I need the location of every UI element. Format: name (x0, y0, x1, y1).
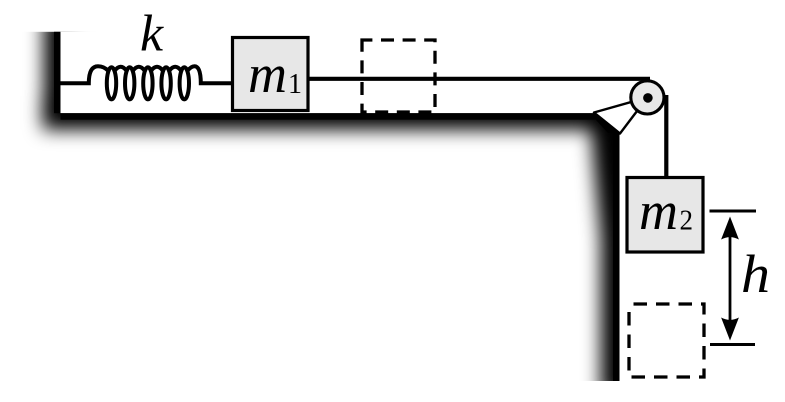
string vertical from pulley to m2 (664, 95, 668, 178)
svg-text:2: 2 (680, 206, 694, 237)
svg-text:1: 1 (288, 69, 302, 100)
measurement arrow shaft (729, 232, 732, 325)
svg-text:k: k (140, 6, 164, 63)
drop edge solid strip (613, 113, 620, 381)
arrowhead down (721, 318, 739, 341)
shading mask right of drop edge (620, 31, 785, 402)
shading mask above table (61, 32, 620, 113)
pulley bracket (594, 97, 647, 133)
dashed box (m2 future position) (629, 304, 704, 377)
pulley wheel (631, 81, 664, 114)
wall + table shading (airbrush fade) (43, 16, 636, 397)
shading mask top (0, 0, 785, 32)
string horizontal from m1 to pulley (300, 77, 650, 81)
arrowhead up (721, 217, 739, 240)
wall solid edge strip (54, 32, 61, 113)
table top solid edge strip (61, 113, 620, 120)
shading mask below drop edge bottom (565, 381, 623, 402)
spring k coil (60, 66, 233, 99)
svg-text:m: m (248, 44, 287, 104)
svg-text:h: h (741, 244, 770, 304)
block m1 (233, 38, 309, 111)
svg-text:m: m (639, 181, 678, 241)
upper tick line (710, 210, 757, 213)
block m2 (627, 178, 703, 253)
corner solid fill (596, 113, 620, 133)
lower tick line (710, 343, 755, 346)
dashed box (m1 future position) (362, 40, 435, 112)
pulley axle dot (643, 93, 653, 103)
